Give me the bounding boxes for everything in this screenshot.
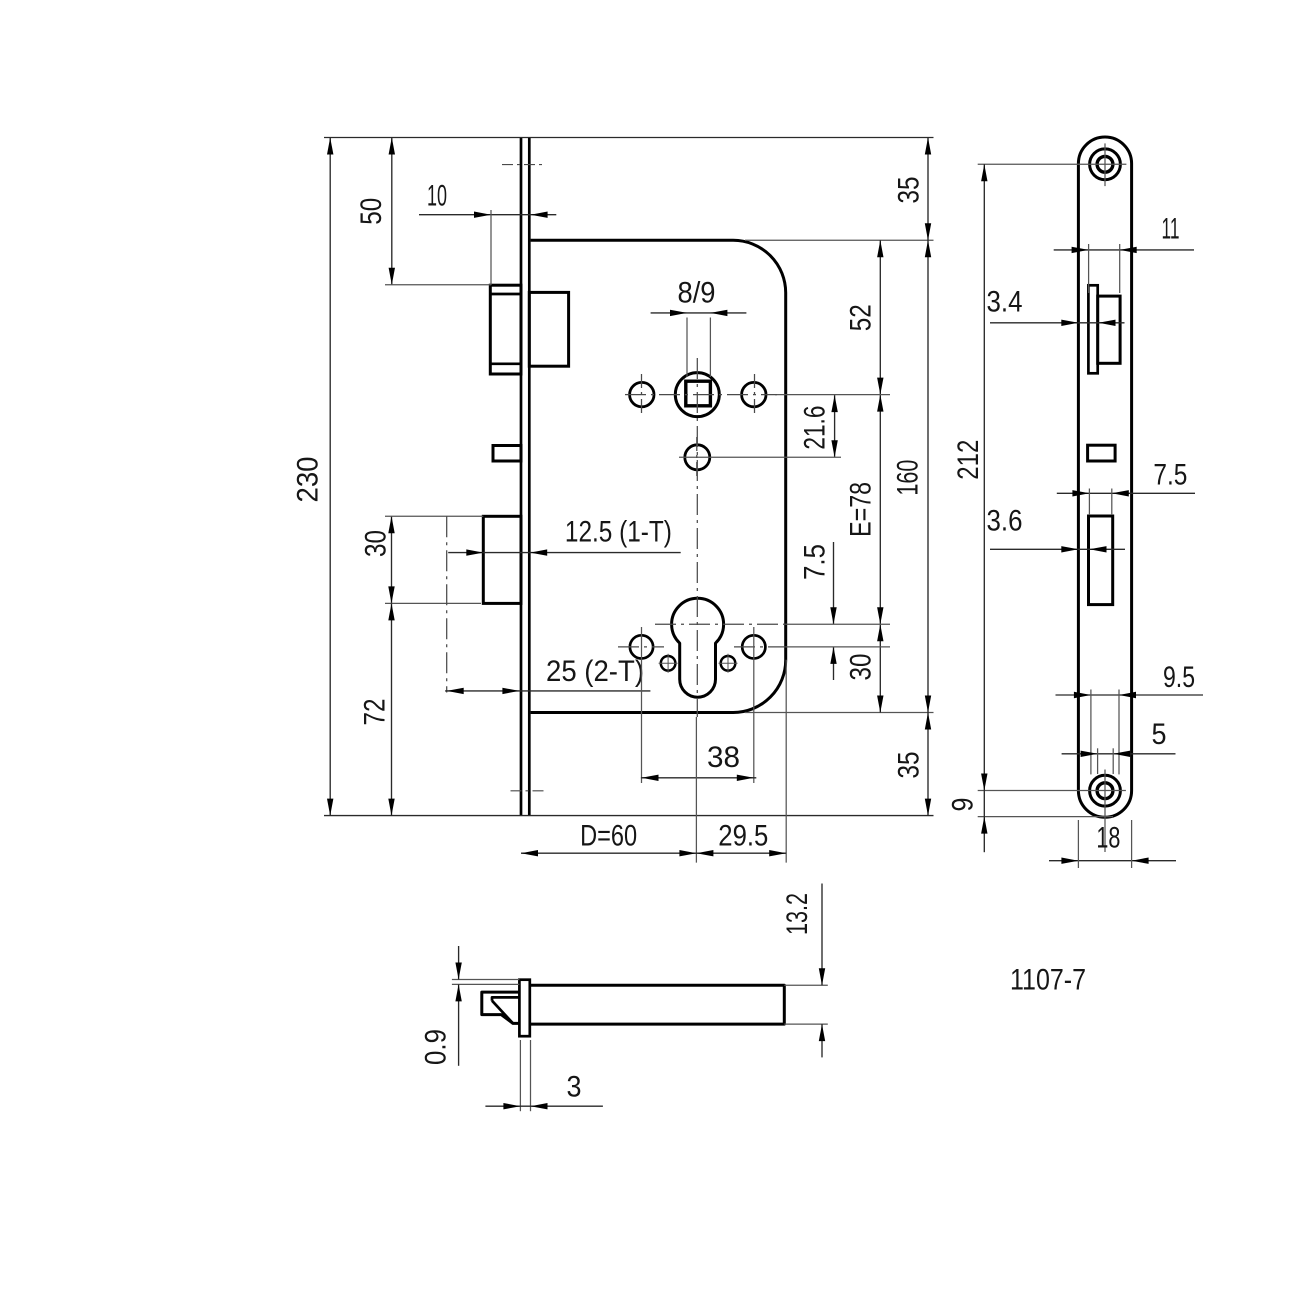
svg-text:10: 10	[427, 180, 447, 213]
svg-text:30: 30	[845, 654, 878, 681]
svg-text:72: 72	[359, 699, 392, 726]
svg-text:11: 11	[1162, 213, 1180, 246]
svg-text:1107-7: 1107-7	[1010, 964, 1086, 997]
svg-text:50: 50	[355, 198, 388, 225]
svg-text:8/9: 8/9	[678, 277, 716, 310]
svg-text:D=60: D=60	[580, 820, 637, 853]
svg-text:13.2: 13.2	[781, 893, 814, 935]
svg-text:9: 9	[947, 798, 980, 812]
svg-text:21.6: 21.6	[799, 406, 832, 450]
svg-text:5: 5	[1152, 718, 1167, 751]
svg-text:35: 35	[893, 177, 926, 204]
svg-text:3.4: 3.4	[987, 286, 1023, 319]
svg-text:30: 30	[360, 530, 393, 557]
svg-text:29.5: 29.5	[718, 820, 768, 853]
svg-text:18: 18	[1096, 822, 1120, 855]
svg-text:12.5 (1-T): 12.5 (1-T)	[565, 516, 672, 549]
svg-text:3: 3	[567, 1071, 582, 1104]
svg-text:25 (2-T): 25 (2-T)	[546, 655, 644, 688]
svg-text:0.9: 0.9	[420, 1029, 453, 1065]
svg-text:35: 35	[893, 752, 926, 779]
svg-text:E=78: E=78	[845, 482, 878, 537]
svg-text:52: 52	[845, 304, 878, 331]
svg-text:38: 38	[707, 741, 740, 774]
svg-text:212: 212	[952, 440, 985, 480]
svg-text:230: 230	[292, 457, 325, 503]
svg-text:7.5: 7.5	[1153, 458, 1187, 491]
svg-text:3.6: 3.6	[987, 505, 1023, 538]
svg-text:160: 160	[892, 460, 925, 496]
svg-text:9.5: 9.5	[1163, 661, 1195, 694]
svg-text:7.5: 7.5	[799, 544, 832, 580]
